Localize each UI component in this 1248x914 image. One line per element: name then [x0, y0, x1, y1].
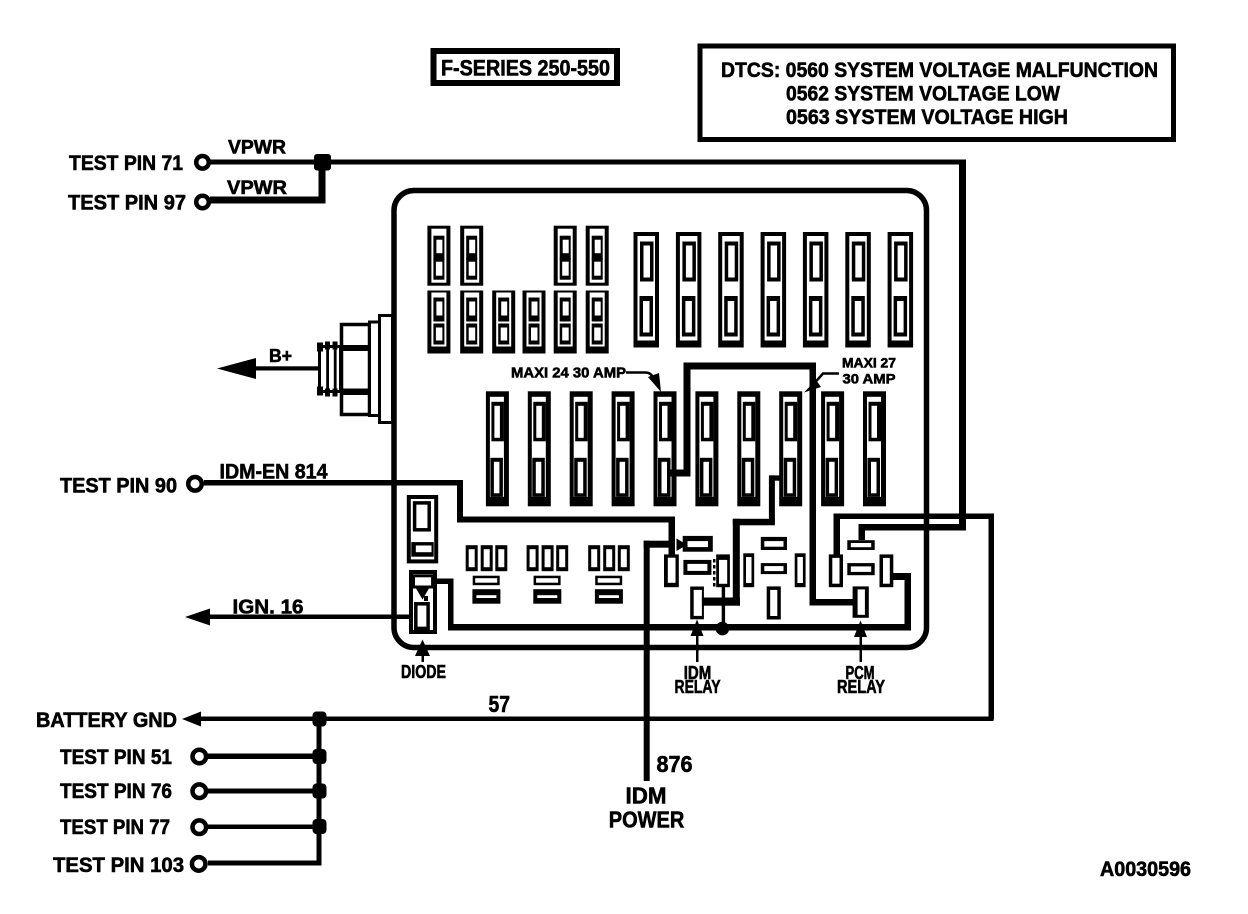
middle relay coil	[767, 586, 781, 619]
middle fuse right	[795, 553, 806, 587]
PCM relay leg	[853, 586, 869, 617]
mini fuse B2	[460, 291, 483, 354]
svg-text:VPWR: VPWR	[228, 138, 286, 159]
maxi fuse D3	[570, 391, 593, 506]
wire BG top horizontal right	[834, 514, 994, 520]
tall fuse C6	[845, 232, 871, 348]
middle contact bar top	[761, 537, 787, 550]
node VPWR junction	[314, 154, 331, 171]
label IDM RELAY	[675, 663, 721, 697]
node BG junction 2	[313, 749, 327, 764]
svg-text:RELAY: RELAY	[837, 677, 885, 697]
mini fuse B6	[586, 291, 609, 354]
leader IDM RELAY arrow	[691, 620, 704, 663]
wire TEST PIN 103	[208, 861, 322, 866]
svg-text:DTCS: 0560 SYSTEM VOLTAGE MALF: DTCS: 0560 SYSTEM VOLTAGE MALFUNCTION	[721, 58, 1158, 82]
wire VPWR horizontal top	[210, 160, 966, 165]
label IDM POWER	[609, 783, 685, 833]
label VPWR lower	[227, 178, 287, 199]
arrow B+	[217, 358, 256, 379]
svg-text:RELAY: RELAY	[675, 677, 721, 697]
mini fuse B1	[427, 291, 450, 354]
PCM contact bar lower	[847, 563, 874, 575]
label MAXI 24 30 AMP	[511, 365, 626, 382]
wire MAXI24 to PCM relay leg	[810, 599, 854, 606]
mini fuse B3	[492, 291, 515, 354]
leader PCM RELAY arrow	[854, 621, 867, 663]
label A0030596	[1100, 858, 1191, 881]
fuse box outline	[394, 191, 927, 648]
maxi fuse D6	[695, 391, 718, 506]
label TEST PIN 103	[53, 854, 184, 877]
label IDM-EN 814	[220, 461, 328, 484]
PCM fuse left	[829, 554, 843, 587]
terminal circle pin 103	[192, 857, 206, 871]
mini fuse B5	[554, 291, 577, 354]
IDM relay leg tab	[702, 598, 740, 606]
terminal circle pin 97	[196, 196, 209, 209]
wire IDM POWER cap	[644, 539, 687, 552]
B+ stud threads	[317, 342, 341, 397]
wire MAXI24 hook from fuse D5	[670, 470, 690, 477]
svg-text:876: 876	[657, 751, 693, 777]
wire IGN 16	[203, 615, 411, 620]
F-SERIES title box	[434, 51, 618, 83]
label BATTERY GND	[36, 709, 177, 732]
wire MAXI24 top horizontal	[684, 363, 817, 370]
IDM relay leg	[690, 587, 704, 620]
label B+	[269, 346, 292, 366]
svg-text:B+: B+	[269, 346, 292, 366]
svg-text:30 AMP: 30 AMP	[843, 371, 896, 387]
mini fuse B4	[523, 291, 546, 354]
B+ stud base plate	[380, 316, 393, 423]
wire IDM-EN turn down	[457, 480, 463, 523]
wire VPWR lower horizontal to PCM relay bar	[859, 524, 967, 531]
svg-text:POWER: POWER	[609, 807, 685, 833]
svg-text:TEST PIN 77: TEST PIN 77	[60, 816, 170, 839]
leader MAXI 24 arrow	[626, 373, 661, 393]
wire IDM relay body drop	[722, 587, 725, 627]
wire VPWR right vertical	[959, 160, 966, 531]
wire from fuse D8 stub	[770, 475, 782, 480]
svg-text:A0030596: A0030596	[1100, 858, 1191, 881]
maxi fuse D10	[863, 391, 886, 506]
spare fuse group 3	[588, 545, 630, 604]
wire TEST PIN 76	[208, 789, 321, 794]
IDM contact bar top	[683, 536, 713, 552]
label TEST PIN 90	[60, 475, 177, 498]
maxi fuse D9	[821, 391, 844, 506]
label TEST PIN 77	[60, 816, 170, 839]
tall fuse C5	[803, 232, 829, 348]
label TEST PIN 97	[68, 192, 186, 215]
wire BG drop to PCM fuse	[834, 514, 841, 555]
maxi fuse D2	[528, 391, 551, 506]
wire BG right vertical	[989, 514, 995, 720]
svg-text:MAXI 27: MAXI 27	[842, 355, 896, 371]
wire TEST PIN 97 to junction	[210, 197, 326, 204]
leader DIODE arrow	[415, 640, 430, 663]
wire bottom bus horizontal	[448, 624, 911, 631]
PCM fuse right	[880, 554, 894, 587]
wire IDM-EN shelf horizontal	[457, 517, 675, 523]
wire MAXI24 vertical up	[684, 363, 691, 477]
mini fuse A4	[586, 226, 609, 286]
maxi fuse D1	[486, 391, 509, 506]
label PCM RELAY	[837, 663, 885, 697]
terminal circle pin 90	[188, 477, 202, 491]
terminal circle pin 77	[193, 820, 207, 834]
node BG junction 1	[313, 712, 327, 727]
label 876	[657, 751, 693, 777]
tall fuse C4	[761, 232, 787, 348]
wire from fuse D8 horizontal left	[733, 519, 775, 526]
terminal circle pin 71	[196, 156, 209, 169]
IDM contact bar lower	[683, 560, 711, 575]
tall fuse C7	[888, 232, 914, 348]
B+ stud flange	[370, 322, 383, 416]
svg-text:TEST PIN 97: TEST PIN 97	[68, 192, 186, 215]
label TEST PIN 71	[69, 152, 183, 175]
svg-text:TEST PIN 51: TEST PIN 51	[60, 746, 172, 769]
terminal circle pin 76	[193, 784, 207, 798]
maxi fuse D7	[737, 391, 760, 506]
svg-text:TEST PIN 90: TEST PIN 90	[60, 475, 177, 498]
middle fuse left	[743, 553, 754, 587]
wire IDM-EN drop to fuse	[669, 517, 676, 557]
maxi fuse D4	[612, 391, 635, 506]
PCM contact bar top	[847, 540, 874, 550]
label DIODE	[401, 662, 446, 682]
svg-text:BATTERY GND: BATTERY GND	[36, 709, 177, 732]
mini fuse A2	[460, 226, 483, 286]
svg-text:VPWR: VPWR	[227, 178, 287, 199]
node BG junction 4	[313, 819, 327, 834]
svg-text:DIODE: DIODE	[401, 662, 446, 682]
label VPWR upper	[228, 138, 286, 159]
IDM relay body	[713, 554, 730, 587]
svg-text:TEST PIN 71: TEST PIN 71	[69, 152, 183, 175]
wire IDM-EN horizontal	[204, 480, 463, 486]
wire from fuse D8 down to IDM relay	[733, 519, 740, 603]
svg-text:57: 57	[489, 691, 511, 717]
svg-text:MAXI 24 30 AMP: MAXI 24 30 AMP	[511, 365, 626, 382]
B+ stud nut	[340, 325, 370, 415]
wire VPWR junction drop	[319, 162, 326, 200]
middle contact bar lower	[761, 563, 787, 574]
wire BATTERY GND horizontal	[196, 717, 994, 722]
terminal circle pin 51	[193, 750, 207, 764]
wire diode to bottom bus L	[434, 579, 454, 631]
maxi fuse D8 MAXI 27	[779, 391, 802, 506]
mini fuse A1	[427, 226, 450, 286]
svg-text:0563 SYSTEM VOLTAGE HIGH: 0563 SYSTEM VOLTAGE HIGH	[786, 105, 1068, 129]
spare fuse group 2	[527, 545, 569, 604]
node BG junction 3	[313, 784, 327, 799]
wire TEST PIN 77	[208, 825, 321, 830]
wire TEST PIN 51	[208, 754, 321, 760]
tall fuse C1	[634, 232, 660, 348]
svg-text:TEST PIN 103: TEST PIN 103	[53, 854, 184, 877]
label 57	[489, 691, 511, 717]
tall fuse C2	[676, 232, 702, 348]
arrow IGN 16	[185, 609, 210, 626]
wire drop into PCM relay top bar	[859, 524, 866, 540]
wire B+	[250, 366, 320, 370]
mini fuse A3	[554, 226, 577, 286]
maxi fuse D5 MAXI 24	[654, 391, 677, 506]
label MAXI 27 / 30 AMP	[842, 355, 896, 387]
wire BG vertical bus	[317, 717, 322, 864]
svg-text:TEST PIN 76: TEST PIN 76	[60, 780, 172, 803]
spare fuse group 1	[466, 545, 508, 604]
svg-text:0562 SYSTEM VOLTAGE LOW: 0562 SYSTEM VOLTAGE LOW	[786, 82, 1061, 106]
leader MAXI 27 arrow	[804, 374, 839, 393]
wire from fuse D8 vertical	[769, 475, 775, 524]
wire MAXI24 right vertical down	[810, 363, 817, 606]
wire right fuse riser	[893, 573, 911, 631]
label TEST PIN 51	[60, 746, 172, 769]
svg-text:F-SERIES 250-550: F-SERIES 250-550	[441, 56, 610, 81]
diode block upper	[409, 497, 436, 561]
IDM fuse (IDM-EN target)	[664, 554, 679, 587]
diode block lower	[411, 572, 435, 632]
svg-text:IDM: IDM	[626, 783, 667, 809]
DTCS title box	[700, 46, 1174, 140]
label TEST PIN 76	[60, 780, 172, 803]
arrow BATTERY GND	[182, 712, 201, 727]
label IGN. 16	[233, 597, 304, 619]
tall fuse C3	[718, 232, 744, 348]
node IDM junction dot	[716, 622, 730, 636]
wire IDM POWER vertical	[644, 541, 650, 781]
